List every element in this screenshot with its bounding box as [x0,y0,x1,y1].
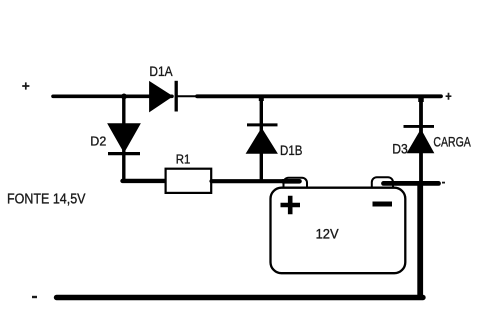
svg-text:D1A: D1A [149,64,173,79]
node junction nub D1B top [259,97,264,101]
wire thin segment after D1A cathode [176,95,198,97]
node + terminal label right [446,93,452,100]
wire D3 vertical [419,96,423,183]
svg-text:D3: D3 [392,141,408,156]
diode D3 cathode bar [404,125,435,128]
wire negative rail right of battery [384,181,439,186]
resistor R1 body [166,169,212,193]
wire overlapping left tab [283,179,300,184]
diode D1B cathode bar [247,123,278,126]
diode D2 triangle [108,124,140,152]
wire right vertical to bottom rail [417,181,423,300]
wire top positive rail left segment [53,95,172,99]
diode D1A triangle [150,82,173,112]
svg-text:D1B: D1B [280,143,302,158]
wire D2 vertical [122,96,125,181]
wire mid rail D2 to R1 [123,179,167,183]
diode D2 cathode bar [108,152,140,155]
node junction dot D2/top rail [121,94,127,100]
svg-text:R1: R1 [176,151,191,166]
diode D3 triangle [408,130,434,153]
wire top positive rail right segment [197,94,441,98]
battery minus symbol [373,202,393,207]
node + terminal label left [22,82,29,89]
wire thin stub into R1 [160,180,166,182]
diode D1B triangle [247,129,278,154]
battery terminal tab right [372,177,393,191]
node junction nub D3 top [418,97,424,102]
battery plus symbol [281,196,301,214]
node - terminal label bottom left [32,296,37,298]
svg-text:FONTE 14,5V: FONTE 14,5V [7,192,86,208]
svg-text:12V: 12V [316,226,339,241]
wire D1B vertical [260,96,263,181]
node - terminal label right [442,182,445,184]
battery terminal tab left [284,178,308,192]
wire R1 to battery positive [212,179,301,183]
battery B1 body 12V [271,188,406,274]
svg-text:D2: D2 [90,133,106,148]
wire bottom negative rail [57,295,424,300]
svg-text:CARGA: CARGA [433,134,471,150]
diode D1A cathode bar [175,81,178,112]
